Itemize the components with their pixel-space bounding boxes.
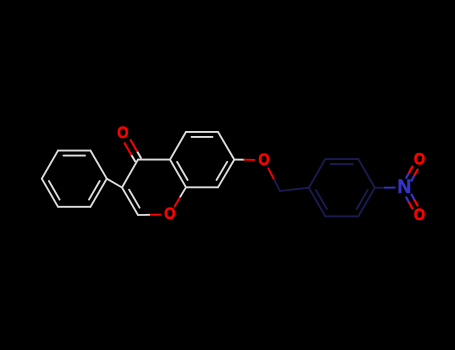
nitrophenyl bond C3''-C4'': [358, 159, 375, 188]
bond C6-C7: [218, 132, 234, 160]
N=O double bond (bottom): [412, 195, 415, 201]
svg-text:O: O: [117, 124, 128, 142]
aromatic double bond C4a=C8a: [170, 160, 186, 188]
ketone C4=O double bond: [131, 155, 135, 162]
nitrophenyl double bond C4''-C5'': [358, 188, 375, 217]
aromatic double bond C5=C6 (top): [186, 131, 218, 133]
bond C8-C8a: [186, 186, 218, 188]
svg-text:N: N: [397, 177, 411, 198]
svg-text:O: O: [258, 151, 269, 169]
bond C3-C4: [122, 160, 138, 188]
bond O1-C8a (red half near O): [175, 197, 181, 207]
svg-text:O: O: [414, 206, 425, 224]
bond C7-O3 (red half near O): [234, 159, 244, 161]
bond C3-phenyl ipso: [107, 179, 122, 188]
bond C4a-C5: [170, 132, 186, 160]
N=O double bond (top): [406, 172, 409, 178]
nitrophenyl double bond C6''-C1'': [309, 188, 326, 217]
phenyl bond C5'-C6' (bottom): [58, 206, 91, 208]
bond C4-C4a: [138, 159, 170, 161]
bond C4''-N (blue half near N): [375, 187, 385, 189]
phenyl double bond C4'-C5' (lower left): [42, 179, 58, 207]
svg-text:O: O: [414, 151, 425, 169]
nitrophenyl bond C5''-C6'' (bottom): [325, 215, 358, 217]
phenyl bond C3'-C4': [42, 151, 58, 179]
double bond C2=C3: [122, 188, 138, 216]
nitrophenyl bond C1''-C2'': [309, 159, 326, 188]
bond O3-CH2 (red half near O): [268, 168, 274, 179]
bond CH2-nitrophenyl: [280, 188, 309, 191]
aromatic double bond C7=C8: [218, 160, 234, 188]
phenyl double bond C6'-C1' (lower right): [91, 179, 107, 207]
svg-text:O: O: [164, 205, 175, 223]
nitrophenyl double bond C2''-C3'' (top): [325, 158, 358, 160]
phenyl bond C1'-C2': [91, 151, 107, 179]
bond O1-C2 (red half near O): [149, 214, 160, 216]
phenyl double bond C2'-C3' (top): [58, 150, 91, 152]
